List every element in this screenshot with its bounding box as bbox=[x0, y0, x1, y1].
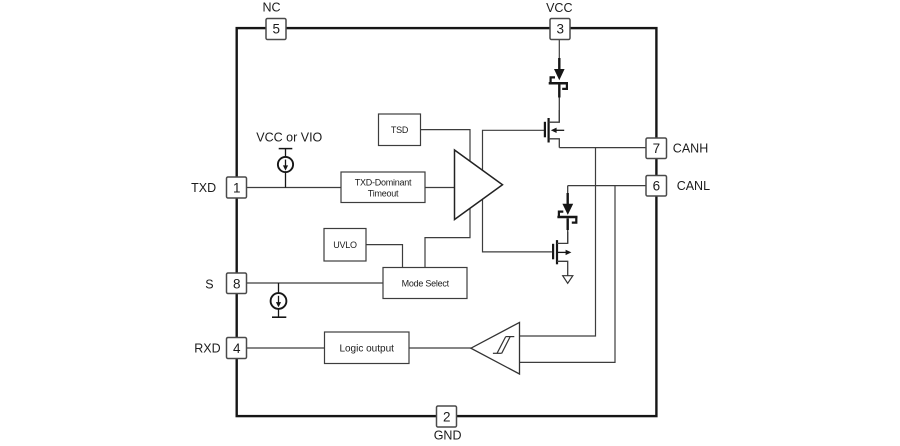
wire CANL to receiver input bbox=[520, 186, 616, 363]
transistor Q1 (high side MOSFET) bbox=[545, 110, 564, 148]
driver amplifier triangle bbox=[455, 150, 503, 220]
svg-text:4: 4 bbox=[233, 341, 241, 356]
pin 4 box bbox=[227, 338, 247, 359]
svg-text:S: S bbox=[205, 278, 213, 292]
block Mode Select bbox=[383, 268, 467, 299]
wire RXD pin to logic output bbox=[247, 347, 325, 349]
IC boundary border bbox=[237, 28, 657, 416]
pin 5 box bbox=[266, 19, 286, 40]
ground symbol bbox=[563, 276, 573, 284]
wire S pin to mode select bbox=[247, 282, 384, 284]
svg-text:VCC: VCC bbox=[546, 1, 572, 15]
svg-text:TSD: TSD bbox=[391, 125, 409, 135]
pin 2 box bbox=[437, 406, 457, 427]
svg-text:5: 5 bbox=[272, 22, 280, 37]
wire TSD to mode select bbox=[421, 130, 471, 268]
pin 7 box bbox=[646, 138, 667, 159]
svg-text:6: 6 bbox=[653, 179, 661, 194]
svg-text:TXD: TXD bbox=[191, 181, 216, 195]
wire TXD pin to timeout block bbox=[247, 187, 342, 189]
block TSD bbox=[379, 114, 421, 146]
svg-text:TXD-Dominant: TXD-Dominant bbox=[355, 177, 412, 187]
wire gate drive bus bbox=[483, 130, 552, 252]
pin 1 box bbox=[227, 177, 247, 198]
block UVLO bbox=[324, 229, 366, 262]
block TXD-Dominant Timeout bbox=[341, 172, 425, 203]
svg-text:2: 2 bbox=[443, 410, 451, 425]
svg-text:UVLO: UVLO bbox=[333, 240, 357, 250]
svg-text:GND: GND bbox=[434, 428, 462, 442]
schottky diode D1 (high side) bbox=[549, 58, 568, 122]
pin 8 box bbox=[227, 273, 247, 294]
receiver comparator triangle bbox=[471, 322, 520, 374]
svg-text:CANH: CANH bbox=[673, 141, 708, 155]
block Logic output bbox=[325, 332, 410, 364]
svg-text:Logic output: Logic output bbox=[339, 343, 394, 354]
svg-text:RXD: RXD bbox=[194, 342, 220, 356]
svg-text:8: 8 bbox=[233, 276, 241, 291]
current source I2 (S pin pull) bbox=[271, 283, 287, 317]
wire VCC pin stub bbox=[558, 40, 560, 59]
hysteresis symbol bbox=[493, 337, 514, 354]
svg-text:Mode Select: Mode Select bbox=[402, 278, 450, 288]
svg-text:VCC or VIO: VCC or VIO bbox=[256, 130, 322, 144]
wire CANL rail bbox=[568, 185, 646, 187]
svg-text:NC: NC bbox=[262, 1, 280, 15]
svg-text:3: 3 bbox=[556, 22, 564, 37]
wire timeout block to driver bbox=[425, 187, 455, 189]
pin 6 box bbox=[646, 176, 667, 197]
pin 3 box bbox=[550, 19, 570, 40]
svg-text:CANL: CANL bbox=[677, 179, 710, 193]
transistor Q2 (low side MOSFET) bbox=[553, 232, 571, 276]
schottky diode D2 (low side) bbox=[557, 186, 577, 244]
current source I1 (VCC or VIO) bbox=[278, 149, 293, 188]
svg-text:Timeout: Timeout bbox=[368, 189, 399, 199]
wire UVLO to mode select bbox=[366, 245, 403, 268]
svg-text:7: 7 bbox=[653, 141, 661, 156]
wire CANH to receiver input bbox=[520, 148, 596, 336]
svg-text:1: 1 bbox=[233, 181, 241, 196]
wire CANH rail bbox=[559, 147, 646, 149]
wire logic output to receiver bbox=[409, 347, 471, 349]
